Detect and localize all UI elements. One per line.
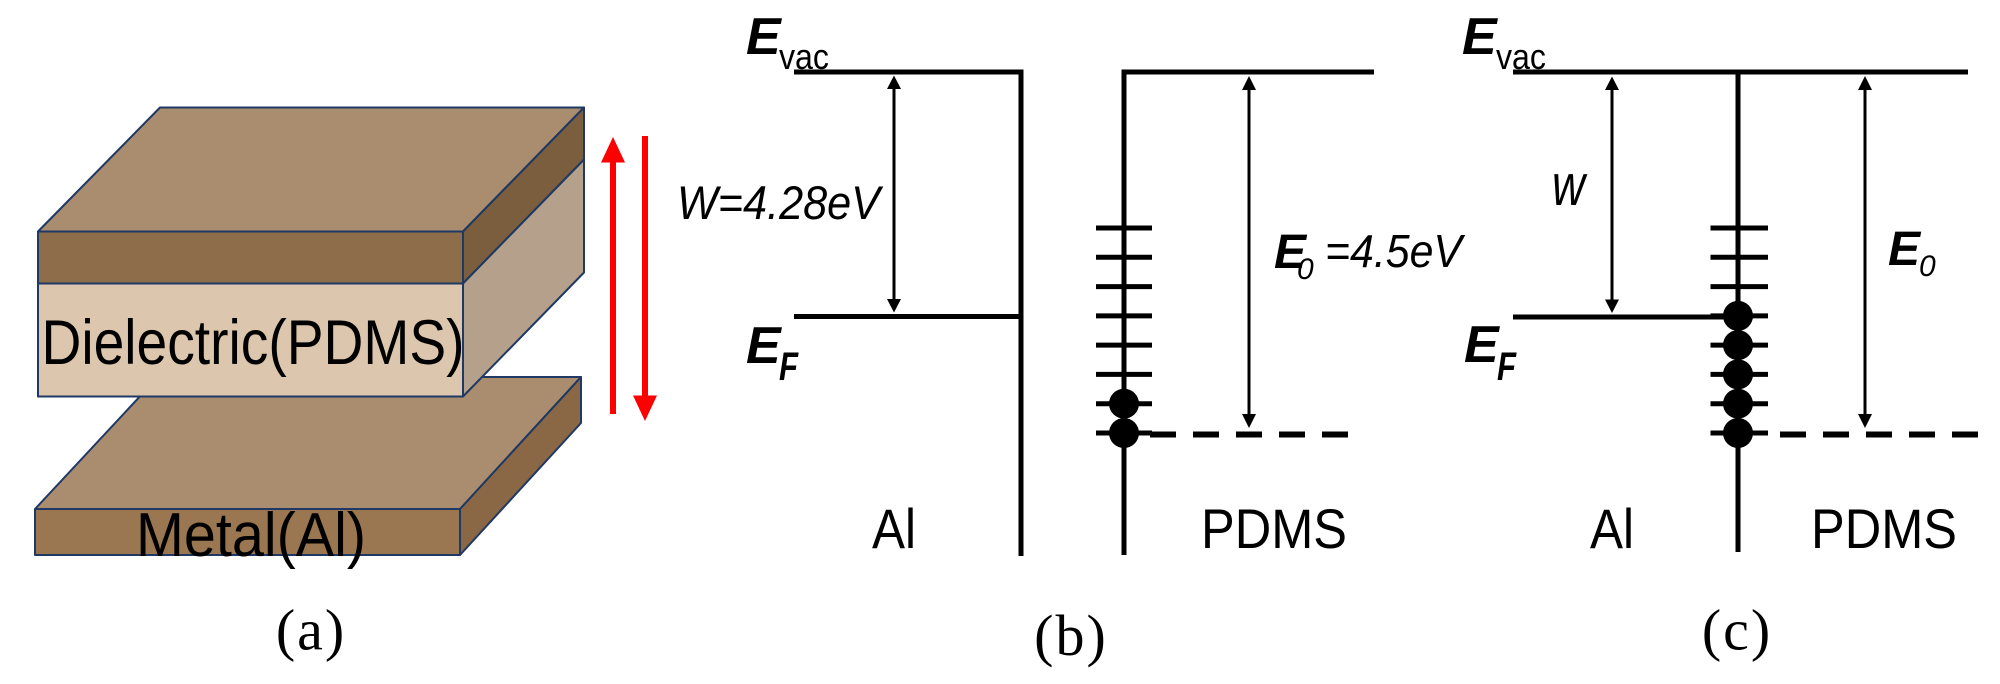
svg-text:F: F xyxy=(779,345,799,389)
svg-text:PDMS: PDMS xyxy=(1201,497,1347,560)
svg-text:PDMS: PDMS xyxy=(1811,497,1957,560)
Fermi level line (c) xyxy=(1513,315,1741,320)
metal(Al) block front face xyxy=(35,509,460,555)
dielectric PDMS right side face xyxy=(463,160,584,397)
w arrow top head (c) xyxy=(1605,77,1619,91)
electron circle 5 (c) xyxy=(1723,418,1753,448)
PDMS vacuum level line (b) xyxy=(1122,70,1375,75)
electron circle 1 (b) xyxy=(1109,389,1139,419)
svg-text:W=4.28eV: W=4.28eV xyxy=(677,176,883,229)
svg-text:F: F xyxy=(1497,345,1517,389)
E0 arrow bottom head (c) xyxy=(1858,414,1872,428)
Al vacuum level line (b) xyxy=(794,70,1024,75)
top electrode top face xyxy=(38,108,584,232)
top electrode right side face xyxy=(463,108,584,284)
electron circle 3 (c) xyxy=(1723,359,1753,389)
occupied level dashed line (b) xyxy=(1150,432,1360,438)
red up arrow shaft xyxy=(610,160,616,414)
electron circle 2 (c) xyxy=(1723,330,1753,360)
svg-text:Al: Al xyxy=(872,497,916,560)
electron circle 2 (b) xyxy=(1109,418,1139,448)
electron circle 1 (c) xyxy=(1723,301,1753,331)
E0 arrow shaft (b) xyxy=(1248,87,1251,417)
PDMS surface vertical line (b) xyxy=(1122,70,1127,556)
svg-text:0: 0 xyxy=(1297,253,1314,286)
top electrode front face xyxy=(38,232,463,284)
metal(Al) block top face xyxy=(35,377,581,509)
svg-text:E: E xyxy=(1462,8,1498,66)
svg-text:E: E xyxy=(746,317,782,375)
Al Fermi level line (b) xyxy=(794,314,1024,319)
E0 arrow shaft (c) xyxy=(1864,87,1867,417)
metal(Al) block right side face xyxy=(460,377,581,555)
surface state ticks (c) xyxy=(1711,228,1769,433)
electron circle 4 (c) xyxy=(1723,389,1753,419)
W work function arrow shaft (b) xyxy=(893,86,896,302)
E0 arrow top head (c) xyxy=(1858,76,1872,90)
contact interface vertical line (c) xyxy=(1736,70,1741,553)
occupied level dashed line (c) xyxy=(1780,432,1990,438)
svg-text:E: E xyxy=(1464,316,1500,374)
svg-text:(b): (b) xyxy=(1034,603,1108,668)
svg-text:Dielectric(PDMS): Dielectric(PDMS) xyxy=(42,308,465,378)
E0 arrow top head (b) xyxy=(1242,76,1256,90)
svg-text:=4.5eV: =4.5eV xyxy=(1325,225,1466,277)
svg-text:w: w xyxy=(1552,153,1587,218)
W arrow bottom head (b) xyxy=(887,299,901,313)
W arrow top head (b) xyxy=(887,76,901,90)
svg-text:Metal(Al): Metal(Al) xyxy=(136,501,366,570)
svg-text:0: 0 xyxy=(1919,250,1936,283)
red up arrow head xyxy=(601,137,625,163)
Al surface barrier vertical line (b) xyxy=(1019,70,1024,557)
svg-text:(c): (c) xyxy=(1702,598,1772,663)
svg-text:E: E xyxy=(746,8,782,66)
red down arrow head xyxy=(633,396,657,422)
common vacuum level line (c) xyxy=(1513,70,1968,75)
svg-text:(a): (a) xyxy=(276,598,346,663)
svg-text:E: E xyxy=(1888,223,1922,276)
svg-text:Al: Al xyxy=(1590,497,1634,560)
dielectric PDMS front face xyxy=(38,284,463,397)
w arrow bottom head (c) xyxy=(1605,300,1619,314)
w arrow shaft (c) xyxy=(1611,87,1614,302)
PDMS surface state ticks (b) xyxy=(1096,228,1152,433)
red down arrow shaft xyxy=(642,136,648,398)
E0 arrow bottom head (b) xyxy=(1242,414,1256,428)
